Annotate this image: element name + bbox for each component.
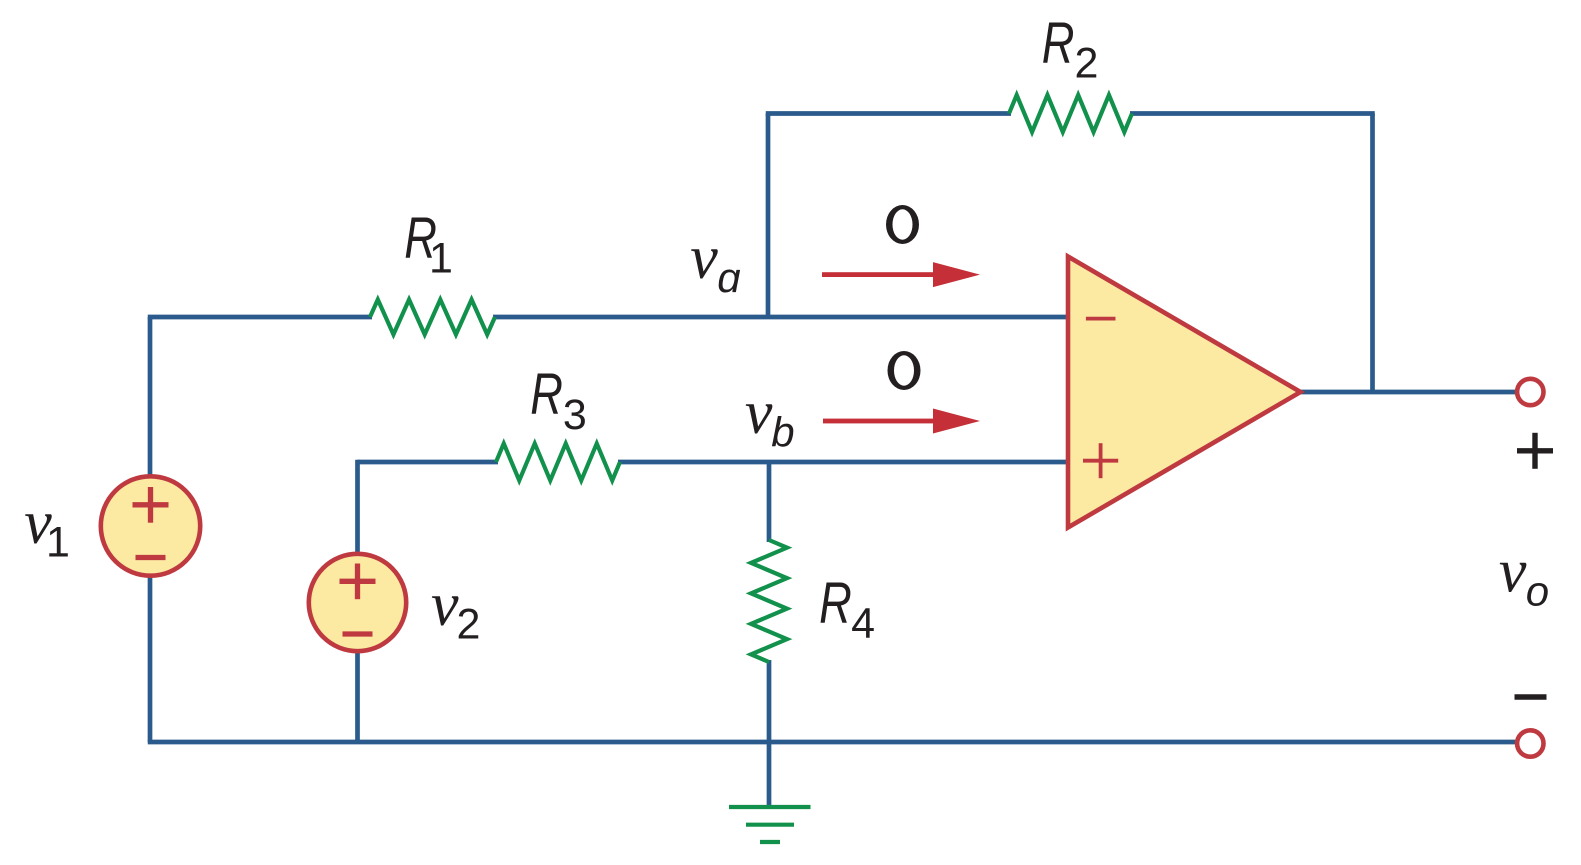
v1 polarity marks — [133, 487, 169, 558]
resistor R1 — [370, 300, 495, 335]
wire: feedback top-right segment — [1130, 111, 1375, 116]
voltage source v2 — [309, 554, 406, 651]
svg-text:o: o — [1526, 567, 1549, 614]
label R4 — [819, 571, 852, 636]
output polarity + — [1517, 433, 1553, 469]
label R2 — [1042, 11, 1075, 76]
wire: vb down to R4 — [767, 462, 772, 542]
current arrow 0 (top) — [822, 262, 980, 287]
svg-text:1: 1 — [46, 519, 70, 567]
wire: feedback right vertical down to output — [1370, 114, 1375, 393]
voltage source v1 — [101, 476, 200, 575]
resistor R4 — [751, 540, 787, 662]
output terminal (bottom) — [1517, 730, 1543, 756]
wire: R4 down to bottom rail — [767, 660, 772, 742]
svg-text:v: v — [690, 224, 718, 292]
resistor R3 — [496, 444, 620, 481]
svg-text:4: 4 — [851, 600, 875, 648]
output polarity - — [1515, 694, 1547, 700]
svg-text:v: v — [431, 571, 459, 639]
label R1 — [404, 206, 437, 271]
label 0 (top) — [886, 205, 919, 244]
output terminal (top) — [1517, 379, 1543, 405]
svg-text:b: b — [771, 409, 794, 456]
svg-text:1: 1 — [429, 235, 453, 283]
wire: v2 bottom vertical — [355, 650, 360, 742]
wire: non-inverting input horizontal (v2 to op-amp, node vb) — [358, 460, 499, 465]
current arrow 0 (bottom) — [823, 409, 980, 434]
op-amp inverting pin mark — [1086, 317, 1116, 321]
ground — [729, 807, 811, 842]
svg-text:3: 3 — [563, 391, 587, 439]
svg-text:ɑ: ɑ — [717, 254, 740, 301]
svg-text:v: v — [745, 379, 773, 447]
svg-text:R: R — [819, 571, 852, 636]
wire: R3 to op-amp non-inverting input (node vb) — [618, 460, 1068, 465]
wire: ground stem — [767, 742, 772, 807]
svg-text:2: 2 — [1075, 40, 1099, 88]
label 0 (bottom) — [888, 351, 921, 390]
op-amp U1 — [1068, 257, 1301, 528]
svg-text:2: 2 — [457, 600, 481, 648]
svg-text:v: v — [1499, 537, 1527, 605]
wire: left vertical branch of v1 — [148, 317, 153, 742]
wire: op-amp output to terminal — [1301, 390, 1519, 395]
wire: bottom horizontal rail — [148, 740, 1519, 745]
label R3 — [530, 362, 563, 427]
svg-text:R: R — [530, 362, 563, 427]
wire: feedback top-left segment — [766, 111, 1011, 116]
wire: va vertical up to feedback — [766, 114, 771, 318]
wire: v2 top vertical — [355, 460, 360, 556]
resistor R2 — [1009, 95, 1132, 132]
v2 polarity marks — [340, 564, 376, 635]
op-amp non-inverting pin mark — [1083, 443, 1118, 478]
wire: R1 to op-amp inverting input (node va) — [493, 315, 1068, 320]
wire: R1 input horizontal segment — [148, 315, 372, 320]
svg-text:R: R — [1042, 11, 1075, 76]
